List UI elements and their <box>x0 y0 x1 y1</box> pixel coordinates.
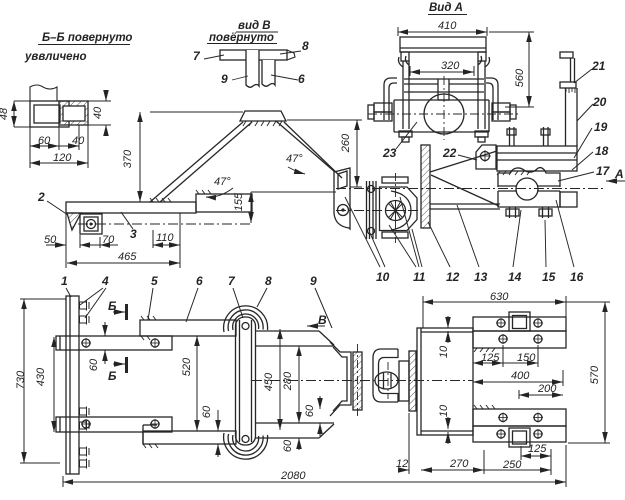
svg-text:40: 40 <box>72 135 85 147</box>
svg-text:1: 1 <box>61 274 68 288</box>
svg-text:40: 40 <box>92 106 104 119</box>
svg-text:47°: 47° <box>214 176 231 188</box>
svg-text:2080: 2080 <box>280 470 306 482</box>
svg-text:20: 20 <box>592 95 607 109</box>
svg-text:200: 200 <box>537 383 557 395</box>
svg-text:17: 17 <box>596 164 611 178</box>
svg-text:вид В: вид В <box>238 20 271 32</box>
svg-text:150: 150 <box>517 352 536 364</box>
svg-text:А: А <box>614 167 624 181</box>
svg-text:13: 13 <box>474 270 488 284</box>
svg-text:60: 60 <box>38 135 51 147</box>
svg-text:19: 19 <box>594 120 608 134</box>
svg-text:320: 320 <box>441 60 460 72</box>
svg-text:450: 450 <box>263 372 275 391</box>
svg-text:370: 370 <box>122 149 134 168</box>
svg-text:8: 8 <box>265 274 272 288</box>
svg-text:6: 6 <box>196 274 203 288</box>
svg-text:23: 23 <box>382 146 397 160</box>
svg-text:4: 4 <box>101 274 109 288</box>
svg-text:Б: Б <box>108 369 117 383</box>
svg-text:48: 48 <box>0 107 10 120</box>
svg-text:22: 22 <box>442 146 457 160</box>
svg-text:9: 9 <box>221 72 228 86</box>
svg-text:520: 520 <box>181 357 193 376</box>
svg-text:730: 730 <box>15 370 27 389</box>
svg-text:2: 2 <box>37 190 45 204</box>
svg-text:18: 18 <box>595 144 609 158</box>
svg-text:410: 410 <box>438 20 457 32</box>
svg-text:11: 11 <box>413 270 426 284</box>
svg-text:430: 430 <box>35 367 47 386</box>
svg-text:155: 155 <box>233 192 245 211</box>
svg-text:50: 50 <box>44 234 57 246</box>
svg-text:465: 465 <box>118 251 137 263</box>
svg-text:10: 10 <box>438 404 450 417</box>
svg-text:250: 250 <box>502 459 522 471</box>
svg-text:Б–Б повернуто: Б–Б повернуто <box>42 32 132 44</box>
svg-text:60: 60 <box>88 358 100 371</box>
svg-text:125: 125 <box>528 443 547 455</box>
svg-text:уввличено: уввличено <box>24 51 87 63</box>
svg-text:16: 16 <box>570 270 584 284</box>
svg-text:47°: 47° <box>286 153 303 165</box>
svg-text:В: В <box>318 313 327 327</box>
svg-text:570: 570 <box>589 365 601 384</box>
svg-text:60: 60 <box>201 405 213 418</box>
svg-text:630: 630 <box>490 291 509 303</box>
svg-text:5: 5 <box>151 274 158 288</box>
svg-text:400: 400 <box>511 370 530 382</box>
svg-text:повёрнуто: повёрнуто <box>209 32 274 44</box>
svg-text:120: 120 <box>53 152 72 164</box>
svg-text:260: 260 <box>340 133 352 153</box>
svg-text:60: 60 <box>282 439 294 452</box>
svg-text:Б: Б <box>108 299 117 313</box>
svg-text:560: 560 <box>514 68 526 87</box>
svg-text:14: 14 <box>508 270 522 284</box>
svg-text:3: 3 <box>130 227 137 241</box>
svg-text:12: 12 <box>446 270 460 284</box>
svg-text:15: 15 <box>542 270 556 284</box>
svg-text:21: 21 <box>591 59 606 73</box>
svg-text:110: 110 <box>156 232 174 244</box>
svg-text:9: 9 <box>310 274 317 288</box>
svg-text:8: 8 <box>302 39 309 53</box>
svg-text:10: 10 <box>376 270 390 284</box>
svg-text:Вид А: Вид А <box>429 2 463 14</box>
svg-text:12: 12 <box>396 458 408 470</box>
svg-text:6: 6 <box>298 72 305 86</box>
svg-text:270: 270 <box>449 458 469 470</box>
svg-text:125: 125 <box>481 352 500 364</box>
svg-text:70: 70 <box>102 234 115 246</box>
svg-text:280: 280 <box>282 371 294 391</box>
svg-text:10: 10 <box>438 345 450 358</box>
svg-text:60: 60 <box>304 404 316 417</box>
